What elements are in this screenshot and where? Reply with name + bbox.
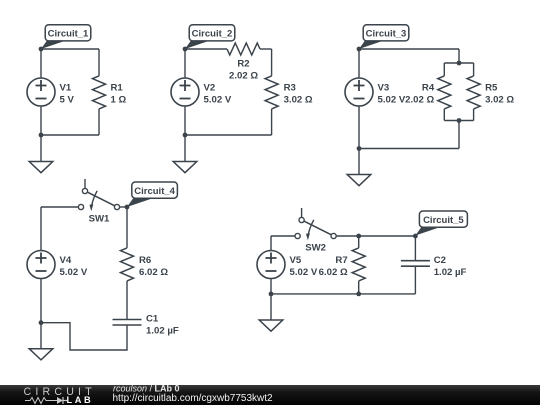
switch SW2 xyxy=(295,208,336,240)
ground C1 xyxy=(29,135,53,173)
svg-text:1 Ω: 1 Ω xyxy=(111,94,127,105)
svg-text:R5: R5 xyxy=(485,82,498,93)
node dot bottom C4 xyxy=(39,320,44,325)
svg-text:SW1: SW1 xyxy=(89,214,110,225)
svg-text:3.02 Ω: 3.02 Ω xyxy=(284,94,313,105)
label C1 value xyxy=(146,313,179,336)
wire right C1 lower xyxy=(98,109,100,135)
flag Circuit_5 xyxy=(415,211,467,236)
svg-text:http://circuitlab.com/cgxwb775: http://circuitlab.com/cgxwb7753kwt2 xyxy=(113,393,274,404)
switch SW1 xyxy=(78,179,119,211)
node dot top C3 xyxy=(357,47,362,52)
resistor R3 xyxy=(265,76,278,109)
wire top-left C5: rail to switch xyxy=(271,235,295,237)
label R2 value xyxy=(229,59,258,82)
svg-text:5.02 V: 5.02 V xyxy=(60,267,88,278)
wire left C3 lower xyxy=(358,106,360,149)
svg-text:5.02 V: 5.02 V xyxy=(290,267,318,278)
svg-text:Circuit_2: Circuit_2 xyxy=(192,29,233,40)
svg-text:R6: R6 xyxy=(139,255,151,266)
node dot C4 switch output xyxy=(125,205,130,210)
label R1 value xyxy=(111,82,127,105)
svg-text:1.02 µF: 1.02 µF xyxy=(146,325,179,336)
wire drop to parallel bank xyxy=(458,49,460,63)
node dot bottom C2 xyxy=(183,133,188,138)
voltage source V4 xyxy=(27,251,55,279)
wire C2 upper stub xyxy=(414,236,416,261)
label C2 value xyxy=(434,255,467,278)
wire left C5 lower xyxy=(270,279,272,294)
node dot C2 top corner xyxy=(413,234,418,239)
wire bank to bottom rail xyxy=(458,121,460,149)
svg-text:V2: V2 xyxy=(204,82,216,93)
wire R5 upper stub xyxy=(473,63,475,76)
svg-text:R2: R2 xyxy=(237,59,249,70)
wire C2 lower stub xyxy=(414,266,416,294)
flag Circuit_4 xyxy=(127,182,177,207)
node dot top C1 xyxy=(39,47,44,52)
wire right C2 upper xyxy=(271,49,273,76)
svg-text:Circuit_3: Circuit_3 xyxy=(366,29,407,40)
svg-text:LAB: LAB xyxy=(67,395,94,405)
ground C4 xyxy=(29,323,53,360)
svg-text:Circuit_1: Circuit_1 xyxy=(48,29,89,40)
ground C3 xyxy=(347,149,371,186)
svg-text:1.02 µF: 1.02 µF xyxy=(434,267,467,278)
flag Circuit_2 xyxy=(185,25,235,49)
wire left C1 lower: V1 to bottom node xyxy=(40,106,42,135)
wire top-left C2: node to R2 xyxy=(185,48,227,50)
ground C5 xyxy=(259,294,283,331)
node dot bottom C3 xyxy=(357,146,362,151)
node dot bottom R7 xyxy=(356,292,361,297)
wire left C2 upper xyxy=(184,49,186,78)
svg-text:Circuit_5: Circuit_5 xyxy=(423,215,464,226)
node dot bottom V5 xyxy=(269,292,274,297)
svg-text:5.02 V: 5.02 V xyxy=(378,94,406,105)
label R5 value xyxy=(485,82,514,105)
wire bottom C3 xyxy=(359,148,459,150)
resistor R1 xyxy=(93,76,106,109)
svg-text:SW2: SW2 xyxy=(305,243,326,254)
label R7 value xyxy=(319,255,348,278)
voltage source V5 xyxy=(257,251,285,279)
svg-text:3.02 Ω: 3.02 Ω xyxy=(485,94,514,105)
wire left C5 upper xyxy=(270,236,272,251)
voltage source V3 xyxy=(345,78,373,106)
wire left C3 upper xyxy=(358,49,360,78)
wire bottom C2 xyxy=(185,134,272,136)
svg-text:V4: V4 xyxy=(60,255,72,266)
node dot bank bottom xyxy=(457,118,462,123)
label V5 value xyxy=(290,255,318,278)
svg-text:6.02 Ω: 6.02 Ω xyxy=(139,267,168,278)
label V3 value xyxy=(378,82,406,105)
wire bottom C1 xyxy=(41,134,99,136)
wire left C2 lower xyxy=(184,106,186,135)
wire R6 to C1 xyxy=(126,281,128,320)
wire right C2 lower xyxy=(271,109,273,135)
node dot R7 top xyxy=(356,234,361,239)
wire left C1 upper: node down to V1 xyxy=(40,49,42,78)
ground C2 xyxy=(173,135,197,173)
label R3 value xyxy=(284,82,313,105)
label V1 value xyxy=(60,82,75,105)
svg-text:5.02 V: 5.02 V xyxy=(204,94,232,105)
wire R4 lower stub xyxy=(443,109,445,121)
resistor R6 xyxy=(121,248,134,281)
node dot bank top xyxy=(457,61,462,66)
wire switch to C2 corner xyxy=(336,235,415,237)
svg-text:6.02 Ω: 6.02 Ω xyxy=(319,267,348,278)
resistor R5 xyxy=(467,76,480,109)
svg-text:R3: R3 xyxy=(284,82,296,93)
wire top-right C2: R2 to corner xyxy=(260,48,272,50)
resistor R4 xyxy=(438,76,451,109)
wire right C1 upper xyxy=(98,49,100,76)
svg-text:C2: C2 xyxy=(434,255,446,266)
svg-text:V3: V3 xyxy=(378,82,390,93)
svg-text:2.02 Ω: 2.02 Ω xyxy=(405,94,434,105)
wire SW1 to node xyxy=(120,206,127,208)
wire right C4: node down to R6 xyxy=(126,207,128,248)
label V2 value xyxy=(204,82,232,105)
top bar of parallel bank xyxy=(444,62,473,64)
wire R5 lower stub xyxy=(473,109,475,121)
wire left C4 upper: down to V4 xyxy=(40,207,42,251)
node dot top C2 xyxy=(183,47,188,52)
wire top-left C4: rail to switch xyxy=(41,206,78,208)
wire top C1: node to R1 top xyxy=(41,48,99,50)
svg-text:5 V: 5 V xyxy=(60,94,75,105)
capacitor C1 xyxy=(113,320,142,326)
voltage source V2 xyxy=(171,78,199,106)
bottom bar of parallel bank xyxy=(444,120,473,122)
svg-text:Circuit_4: Circuit_4 xyxy=(134,186,175,197)
wire R4 upper stub xyxy=(443,63,445,76)
wire bottom C5 xyxy=(271,293,415,295)
flag Circuit_3 xyxy=(359,25,409,49)
flag Circuit_1 xyxy=(41,25,91,49)
resistor R2 xyxy=(227,43,260,55)
label R4 value xyxy=(405,82,435,105)
wire top C3: node to right corner xyxy=(359,48,459,50)
svg-text:V1: V1 xyxy=(60,82,72,93)
svg-text:R1: R1 xyxy=(111,82,124,93)
label R6 value xyxy=(139,255,168,278)
svg-text:2.02 Ω: 2.02 Ω xyxy=(229,70,258,81)
capacitor C2 xyxy=(401,261,430,267)
wire R7 upper stub xyxy=(358,236,360,248)
svg-text:C1: C1 xyxy=(146,313,159,324)
wire left C4 lower xyxy=(40,279,42,323)
logo schematic squiggle xyxy=(25,398,53,404)
resistor R7 xyxy=(352,248,365,281)
svg-text:R4: R4 xyxy=(422,82,435,93)
svg-text:V5: V5 xyxy=(290,255,302,266)
svg-text:R7: R7 xyxy=(335,255,347,266)
wire R7 lower stub xyxy=(358,281,360,294)
wire C1 bottom jog xyxy=(41,323,127,350)
label V4 value xyxy=(60,255,88,278)
node dot bottom C1 xyxy=(39,133,44,138)
voltage source V1 xyxy=(27,78,55,106)
